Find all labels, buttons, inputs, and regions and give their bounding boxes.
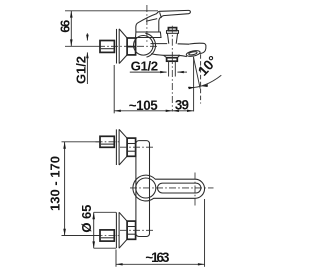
svg-text:39: 39 <box>175 98 189 113</box>
svg-text:G1/2: G1/2 <box>131 58 159 73</box>
svg-text:66: 66 <box>58 20 73 33</box>
svg-text:130 - 170: 130 - 170 <box>47 156 62 211</box>
svg-text:~105: ~105 <box>129 98 159 113</box>
svg-text:G1/2: G1/2 <box>74 56 89 84</box>
svg-text:~163: ~163 <box>145 250 169 265</box>
svg-text:Ø 65: Ø 65 <box>79 205 94 233</box>
